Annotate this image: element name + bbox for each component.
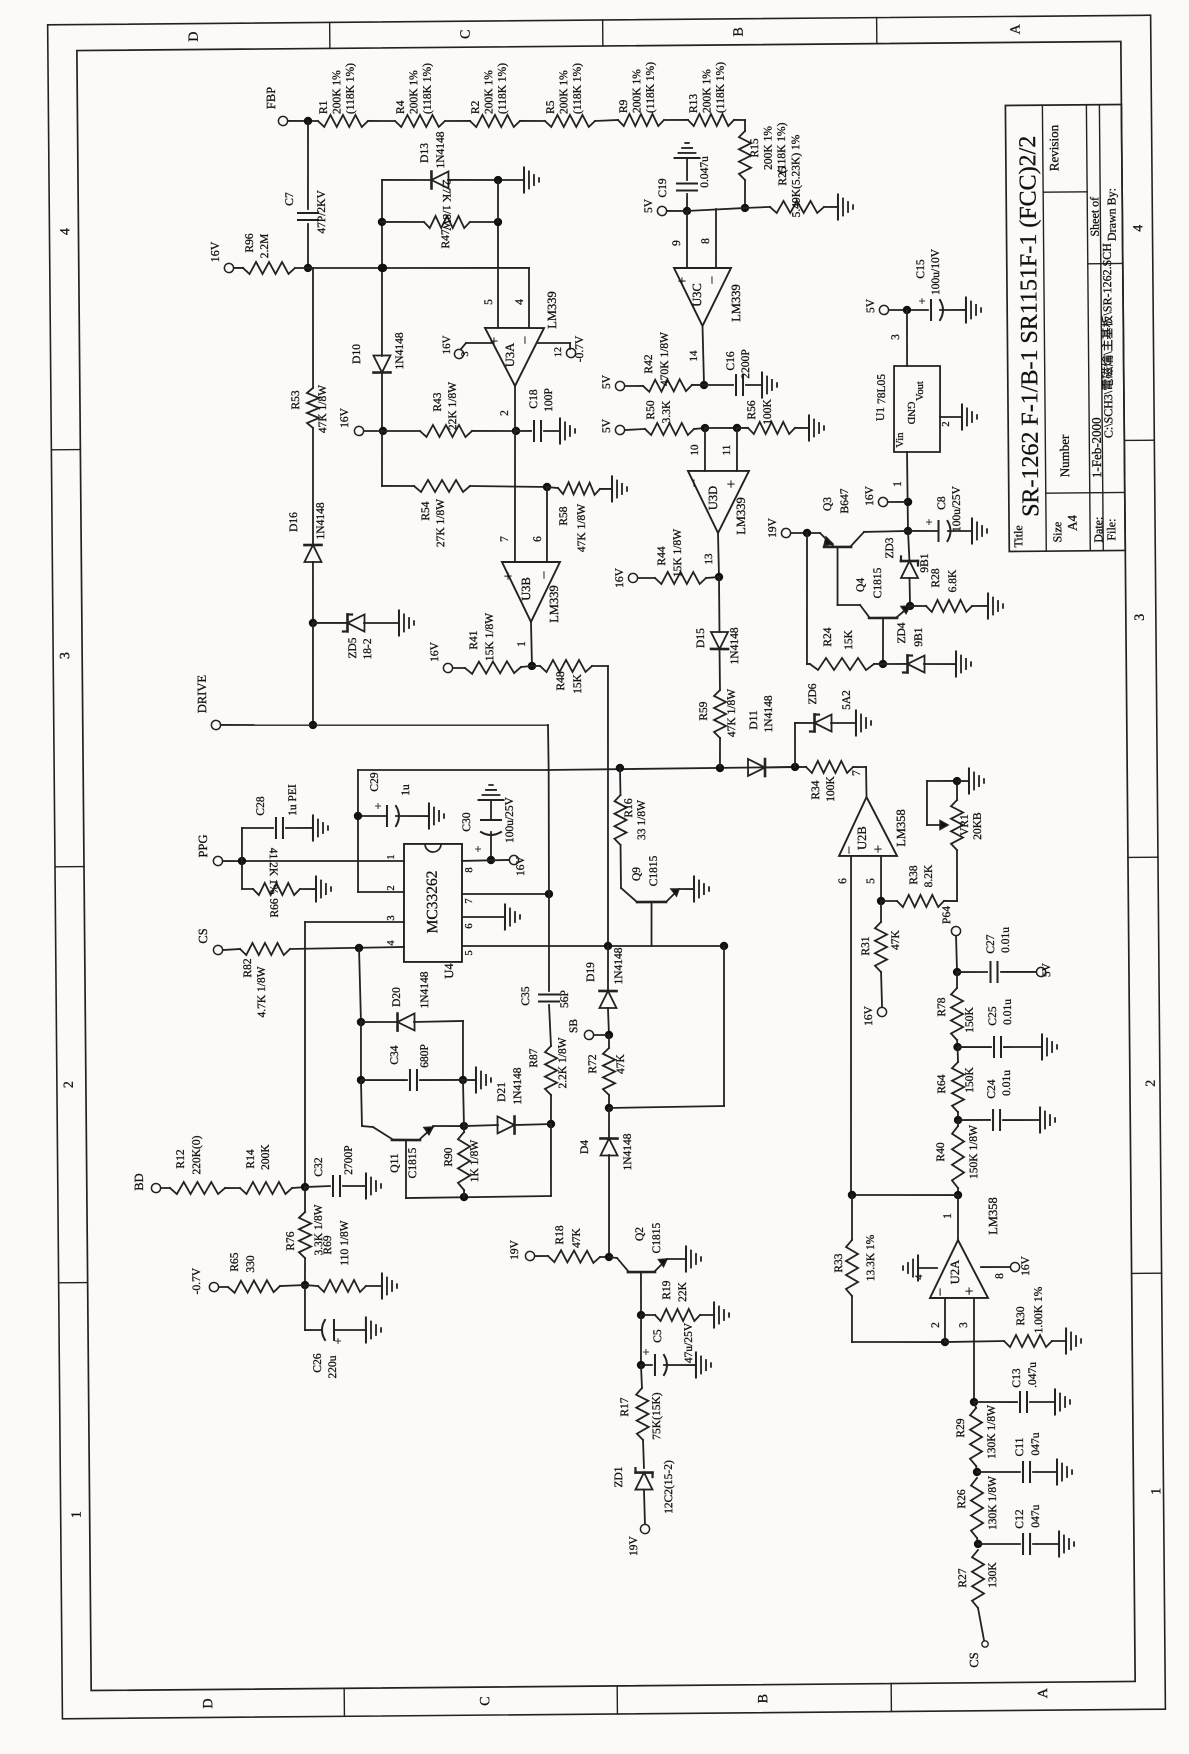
svg-text:5: 5: [483, 299, 495, 305]
port 5V at C19: [643, 198, 667, 216]
wire node to R76: [304, 1187, 306, 1212]
svg-text:R48: R48: [555, 671, 567, 691]
wire node to R53: [312, 268, 314, 388]
svg-text:R13: R13: [688, 94, 700, 114]
op-amp U2A: [929, 1197, 1001, 1298]
svg-text:8: 8: [464, 867, 475, 872]
svg-text:R14: R14: [245, 1149, 257, 1169]
svg-text:(118K 1%): (118K 1%): [776, 122, 788, 173]
svg-text:200K 1%: 200K 1%: [558, 70, 570, 114]
resistor R2: [470, 63, 521, 128]
resistor R56: [746, 398, 795, 434]
port 16V at R44: [614, 567, 638, 588]
ground at C12: [1059, 1531, 1074, 1556]
wire R69 to ground: [366, 1285, 382, 1287]
wire 16V to pin1 col: [888, 501, 908, 503]
wire D13 vertical left: [377, 180, 387, 356]
zener ZD1: [613, 1460, 675, 1514]
diode D4: [579, 1133, 634, 1171]
ground at C11: [1057, 1459, 1072, 1484]
svg-text:47K 1/8W: 47K 1/8W: [576, 504, 588, 552]
wire 19V corner to R24: [807, 663, 810, 665]
wire DRIVE row: [221, 722, 548, 728]
wire C15 to ground: [940, 309, 966, 311]
svg-text:7: 7: [464, 898, 475, 903]
svg-text:150K: 150K: [964, 1067, 976, 1093]
wire node2 to C26: [305, 1285, 322, 1330]
svg-text:R9: R9: [618, 99, 630, 113]
svg-text:D: D: [201, 1698, 216, 1708]
svg-text:C5: C5: [652, 1329, 664, 1343]
wire 16V to R44: [638, 577, 655, 579]
svg-text:100K: 100K: [762, 398, 774, 424]
resistor R29: [955, 1405, 998, 1466]
wire U3C pin9: [671, 211, 688, 268]
wire C34 to node: [420, 1079, 463, 1082]
wire VR1 top node: [953, 777, 969, 800]
wire pin2 route down: [357, 770, 404, 893]
wire R14 to node: [292, 1183, 309, 1192]
svg-text:14: 14: [688, 350, 700, 362]
svg-text:D15: D15: [695, 628, 707, 648]
svg-text:C19: C19: [657, 178, 669, 198]
zener ZD3: [884, 537, 931, 578]
svg-text:5V: 5V: [601, 418, 613, 433]
svg-text:C32: C32: [313, 1157, 325, 1177]
svg-text:C7: C7: [284, 192, 296, 206]
ground at C13: [1055, 1389, 1070, 1414]
wire ZD4 to ground: [924, 663, 956, 666]
svg-text:C12: C12: [1014, 1509, 1026, 1529]
op-amp U2B: [839, 797, 909, 857]
wire R17 to ZD1: [642, 1440, 645, 1468]
capacitor C7: [284, 189, 328, 234]
svg-text:6: 6: [464, 923, 475, 928]
svg-text:SR-1262 F-1/B-1 SR1151F-1 (FCC: SR-1262 F-1/B-1 SR1151F-1 (FCC)2/2: [1015, 136, 1044, 517]
svg-text:R24: R24: [822, 627, 834, 647]
wire D4 to Q2 row: [608, 1155, 610, 1257]
svg-text:1N4148: 1N4148: [315, 502, 327, 539]
diode D15: [695, 627, 741, 665]
svg-text:C13: C13: [1011, 1368, 1023, 1388]
svg-text:A4: A4: [1064, 514, 1079, 531]
svg-text:R41: R41: [468, 630, 480, 650]
svg-text:C27: C27: [985, 934, 997, 954]
svg-text:15K: 15K: [843, 629, 855, 650]
svg-text:220K(0): 220K(0): [191, 1135, 203, 1174]
wire P64 node to R78: [956, 972, 958, 988]
wire node2 to R69: [305, 1285, 318, 1286]
wire R2-R5: [520, 120, 545, 123]
svg-text:R4: R4: [395, 100, 407, 114]
port 16V at R96: [208, 241, 234, 273]
wire C30 down to pin8 row: [487, 832, 496, 864]
svg-text:8: 8: [994, 1273, 1006, 1279]
svg-text:C26: C26: [312, 1353, 324, 1373]
wire D15 to R59: [719, 649, 721, 690]
svg-text:1: 1: [942, 1213, 954, 1219]
wire R15 to node: [741, 180, 750, 212]
ground at C16: [762, 372, 777, 397]
svg-text:C: C: [478, 1696, 493, 1705]
ground at C19 top: [674, 143, 699, 158]
svg-text:A: A: [1009, 23, 1024, 34]
svg-text:6: 6: [532, 536, 544, 542]
wire CS to R82: [223, 949, 240, 950]
svg-text:R5: R5: [545, 100, 557, 114]
wire R18 to base node: [600, 1253, 613, 1262]
wire 5V to C15 node: [889, 306, 928, 315]
wire ZD6 node up: [795, 723, 816, 767]
wire R38 node to R31: [880, 901, 882, 922]
svg-text:DRIVE: DRIVE: [195, 675, 209, 714]
wire R30 to ground: [1052, 1340, 1066, 1342]
svg-text:3: 3: [890, 334, 902, 340]
wire pin8 row: [462, 860, 509, 861]
wire emitter node to D21: [464, 1124, 498, 1127]
svg-text:100u/25V: 100u/25V: [951, 485, 963, 532]
capacitor C13: [1011, 1362, 1039, 1412]
svg-text:1N4148: 1N4148: [394, 332, 406, 369]
wire D20 row left: [361, 1021, 398, 1024]
wire U2B pin5 down: [865, 856, 885, 905]
svg-text:C15: C15: [915, 259, 927, 279]
svg-text:200K 1%: 200K 1%: [331, 70, 343, 114]
wire R16 top: [619, 768, 622, 795]
svg-text:CS: CS: [967, 1652, 981, 1667]
capacitor C15: [915, 248, 944, 320]
svg-text:C30: C30: [461, 812, 473, 832]
svg-text:13.3K 1%: 13.3K 1%: [865, 1234, 877, 1281]
svg-text:Vin: Vin: [895, 432, 906, 448]
port SB: [568, 1018, 594, 1039]
ground at R66: [316, 876, 331, 901]
svg-text:R19: R19: [661, 1280, 673, 1300]
wire R12-R14: [225, 1187, 240, 1189]
wire Q9 emitter to ground: [679, 888, 694, 890]
svg-text:1u: 1u: [400, 784, 412, 796]
resistor R66: [253, 847, 301, 917]
title block frame: [1005, 104, 1125, 551]
svg-text:File:: File:: [1104, 519, 1118, 541]
svg-text:47K 1/8W: 47K 1/8W: [317, 385, 329, 433]
ground at Q9: [694, 876, 709, 901]
svg-text:3.3K: 3.3K: [661, 400, 673, 423]
svg-text:C: C: [459, 29, 474, 38]
resistor R19: [655, 1280, 700, 1321]
wire D11 to ZD6 node: [765, 763, 806, 772]
svg-text:16V: 16V: [429, 641, 441, 662]
wire R90 bottom: [463, 1190, 465, 1197]
wire R53 to D16: [312, 428, 314, 545]
wire Q9 base down: [650, 902, 653, 946]
wire R33 top: [851, 1195, 854, 1240]
ground at C29: [429, 803, 444, 828]
svg-text:100u/25V: 100u/25V: [504, 796, 516, 843]
wire pin4 corner down: [514, 268, 530, 328]
svg-text:A: A: [1036, 1687, 1051, 1698]
wire C13 row: [974, 1401, 1017, 1404]
svg-text:1K 1/8W: 1K 1/8W: [469, 1140, 481, 1183]
wire R29 to C11 node: [973, 1466, 981, 1476]
svg-text:12C2(15-2): 12C2(15-2): [663, 1460, 675, 1514]
wire R54 to node: [470, 483, 551, 492]
wire base col to C5 node: [636, 1315, 645, 1369]
wire R65 to node2: [280, 1285, 305, 1286]
svg-text:1: 1: [516, 641, 528, 647]
svg-text:R12: R12: [175, 1149, 187, 1169]
svg-text:LM339: LM339: [729, 284, 743, 322]
wire D19 to SB node: [605, 1008, 614, 1039]
capacitor C26: [312, 1320, 346, 1379]
svg-text:+: +: [922, 518, 936, 525]
wire 19V to R18: [535, 1255, 548, 1257]
wire R9-R13: [664, 119, 688, 121]
svg-text:16V: 16V: [441, 335, 453, 354]
svg-text:6: 6: [837, 878, 849, 884]
svg-text:1N4148: 1N4148: [622, 1133, 634, 1170]
diode D11: [747, 695, 775, 776]
svg-text:+: +: [639, 1348, 653, 1355]
svg-text:D21: D21: [496, 1082, 508, 1102]
svg-text:0.047u: 0.047u: [699, 156, 711, 188]
wire R34 to U2B out: [851, 767, 867, 797]
diode D20: [391, 971, 432, 1031]
wire C12 to ground: [1033, 1543, 1059, 1545]
svg-text:2: 2: [386, 885, 397, 890]
capacitor C25: [987, 999, 1015, 1057]
svg-text:D10: D10: [351, 344, 363, 364]
svg-text:LM358: LM358: [894, 809, 908, 847]
wire C5 node to R17: [641, 1365, 642, 1388]
op-amp U3D: [687, 470, 750, 535]
wire R24 to Q4 base node: [874, 663, 883, 665]
svg-text:Q11: Q11: [389, 1153, 401, 1173]
transistor Q3: [820, 488, 909, 547]
wire R42 to node: [692, 384, 704, 386]
svg-text:+: +: [471, 845, 485, 852]
wire C30 stem up: [490, 800, 492, 820]
svg-text:16V: 16V: [208, 241, 222, 262]
svg-text:U2A: U2A: [948, 1260, 962, 1284]
ground at C15: [966, 297, 981, 322]
svg-text:C18: C18: [528, 389, 540, 409]
capacitor C16: [725, 349, 752, 395]
ground at C8: [972, 518, 987, 543]
wire 5V to C19 node: [667, 210, 687, 212]
zener ZD4: [896, 622, 925, 673]
resistor R48: [540, 660, 592, 695]
wire ZD3 to Q4 node: [906, 578, 915, 610]
wire Q4 base down: [878, 618, 887, 668]
wire node to R58: [547, 487, 558, 488]
capacitor C32: [313, 1145, 355, 1196]
svg-text:047u: 047u: [1030, 1504, 1042, 1527]
capacitor C12: [1014, 1504, 1042, 1554]
wire node to R48: [532, 665, 540, 667]
svg-text:200K 1%: 200K 1%: [701, 69, 713, 113]
svg-text:R65: R65: [229, 1252, 241, 1272]
svg-text:+: +: [331, 1337, 345, 1344]
wire node col up: [463, 1080, 464, 1126]
ground at U2A pin4: [903, 1255, 918, 1280]
svg-text:R29: R29: [955, 1418, 967, 1438]
svg-text:5: 5: [865, 878, 877, 884]
wire D21 to R87 node: [514, 1124, 551, 1125]
svg-text:R17: R17: [619, 1397, 631, 1417]
svg-text:2: 2: [499, 410, 511, 416]
wire D10 to R43 row: [378, 372, 387, 435]
svg-text:VR1: VR1: [959, 814, 971, 836]
port BD: [132, 1173, 161, 1193]
svg-text:PPG: PPG: [196, 834, 210, 857]
svg-text:5.49K(5.23K) 1%: 5.49K(5.23K) 1%: [790, 134, 803, 217]
wire Q4 node to R28: [910, 605, 926, 607]
svg-text:Q2: Q2: [634, 1227, 646, 1241]
svg-text:19V: 19V: [509, 1239, 521, 1260]
wire R27 to CS: [978, 1608, 984, 1640]
wire SB node to R72: [608, 1035, 610, 1048]
resistor R4: [394, 63, 445, 128]
svg-text:R78: R78: [936, 997, 948, 1017]
svg-text:150K: 150K: [964, 1007, 976, 1033]
svg-text:130K: 130K: [987, 1562, 999, 1588]
svg-text:1: 1: [892, 481, 904, 487]
svg-text:R58: R58: [558, 506, 570, 526]
svg-text:3: 3: [958, 1322, 970, 1328]
resistor R41: [464, 612, 521, 673]
svg-text:R33: R33: [833, 1253, 845, 1273]
wire pin5 row to D19: [607, 946, 610, 991]
svg-text:−: −: [933, 1288, 949, 1297]
svg-text:130K 1/8W: 130K 1/8W: [986, 1405, 998, 1459]
wire C29 left: [354, 812, 387, 821]
wire Q11 collector col: [361, 1080, 373, 1127]
wire 16V to R43: [364, 430, 420, 433]
wire R43 to node: [472, 427, 520, 436]
wire D13 vertical right: [497, 180, 500, 222]
svg-text:5V: 5V: [643, 198, 655, 213]
svg-text:1N4148: 1N4148: [512, 1067, 524, 1104]
svg-text:(118K 1%): (118K 1%): [645, 62, 657, 113]
svg-text:D13: D13: [419, 143, 431, 163]
resistor R64: [936, 1062, 976, 1112]
svg-text:C1815: C1815: [872, 567, 884, 598]
svg-text:2700P: 2700P: [343, 1145, 355, 1175]
svg-text:5V: 5V: [865, 298, 877, 313]
wire C25 node to R64: [957, 1047, 960, 1062]
wire C19 node to R15 node: [687, 208, 745, 211]
wire R13 corner to R15: [734, 120, 745, 131]
svg-text:3: 3: [386, 915, 397, 920]
wire Q11 base down: [405, 1140, 406, 1198]
svg-text:330: 330: [245, 1255, 257, 1273]
wire C11 row: [977, 1471, 1020, 1474]
svg-text:200K 1%: 200K 1%: [408, 70, 420, 114]
wire R96 to node: [295, 267, 308, 269]
wire PPG to pin1: [223, 855, 404, 865]
wire R87 node down: [405, 1124, 551, 1202]
wire C8 to ground: [948, 530, 972, 532]
svg-text:C25: C25: [987, 1006, 999, 1026]
svg-text:150K 1/8W: 150K 1/8W: [968, 1125, 980, 1179]
svg-text:4: 4: [386, 940, 397, 946]
port 19V at ZD1: [628, 1524, 650, 1556]
wire U1 pin1 down: [892, 452, 913, 535]
resistor R72: [587, 1048, 627, 1095]
port PPG: [196, 834, 223, 865]
wire FBP to R1: [288, 117, 318, 126]
ground at ZD6: [856, 710, 871, 735]
wire U3C pin8: [700, 209, 717, 268]
svg-text:SB: SB: [568, 1019, 580, 1033]
resistor R27: [957, 1550, 1000, 1608]
svg-text:R31: R31: [860, 936, 872, 956]
wire Q2 base down: [636, 1272, 645, 1319]
svg-text:R56: R56: [746, 400, 758, 420]
svg-text:R47: R47: [440, 229, 452, 249]
svg-text:1.00K 1%: 1.00K 1%: [1033, 1286, 1045, 1333]
wire 5V to R50: [625, 429, 645, 430]
svg-text:680P: 680P: [419, 1044, 431, 1068]
wire R31 to 16V: [881, 972, 882, 1007]
resistor R53: [290, 385, 329, 434]
ground at R30: [1066, 1328, 1081, 1353]
svg-text:47u/25V: 47u/25V: [683, 1322, 695, 1363]
resistor R38: [897, 864, 944, 908]
svg-text:27K 1/8W: 27K 1/8W: [435, 499, 447, 547]
svg-text:D11: D11: [748, 710, 760, 730]
resistor R9: [617, 62, 664, 127]
wire R4-R2: [445, 120, 470, 122]
transistor Q4: [855, 567, 910, 618]
resistor R24: [810, 627, 874, 671]
svg-text:+: +: [675, 277, 691, 286]
svg-text:100K: 100K: [825, 776, 837, 802]
svg-text:11: 11: [721, 445, 733, 456]
svg-text:3: 3: [58, 652, 73, 659]
svg-text:D19: D19: [585, 962, 597, 982]
ground at R28: [988, 593, 1003, 618]
resistor R30: [1003, 1286, 1052, 1347]
wire pin10 node to pin11 node: [705, 424, 741, 433]
svg-text:ZD4: ZD4: [896, 622, 908, 643]
ground at R56: [809, 415, 824, 440]
svg-text:4: 4: [58, 228, 73, 235]
svg-text:0.01u: 0.01u: [1001, 1070, 1013, 1096]
svg-text:LM339: LM339: [545, 291, 559, 329]
wire U3A pin12 to -0.7V: [538, 335, 586, 363]
resistor R26: [956, 1476, 999, 1538]
resistor R47: [424, 179, 471, 249]
wire base node2 to R19: [641, 1314, 655, 1316]
svg-text:+: +: [962, 1287, 978, 1296]
wire pin7 route: [461, 770, 554, 992]
svg-text:12: 12: [553, 347, 564, 357]
wire C12 row: [978, 1543, 1020, 1546]
wire pin5 down: [482, 222, 499, 328]
ground at C5: [696, 1352, 711, 1377]
wire R82 to pin4: [290, 943, 404, 952]
resistor R25: [769, 134, 824, 218]
wire R33 to row 1342: [852, 1295, 950, 1347]
svg-text:10: 10: [689, 444, 701, 456]
svg-text:100P: 100P: [543, 388, 555, 412]
wire C25 to ground: [1004, 1046, 1042, 1049]
svg-text:16V: 16V: [515, 855, 527, 876]
wire -0.7V to R65: [219, 1286, 228, 1288]
svg-text:R76: R76: [285, 1231, 297, 1251]
